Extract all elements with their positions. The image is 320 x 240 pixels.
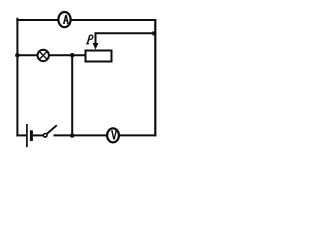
wire: slider feed horizontal — [96, 32, 157, 34]
wire: lamp row horizontal — [16, 54, 85, 56]
voltmeter U2 — [107, 128, 119, 142]
wire: right vertical — [154, 19, 156, 136]
label P — [86, 35, 93, 44]
switch K: pivot — [43, 134, 47, 138]
node: lamp row on left vertical — [15, 53, 20, 58]
wire: left vertical (battery negative riser) — [16, 18, 18, 137]
wire: top horizontal — [16, 19, 156, 21]
wire: switch to voltmeter — [54, 134, 108, 136]
rheostat P: slider arrow — [93, 32, 99, 49]
node: slider wire joins right vertical — [153, 31, 157, 36]
wire: battery to switch — [33, 134, 43, 136]
wire: bottom left stub — [16, 134, 26, 136]
lamp L1 — [38, 50, 49, 61]
rheostat P: body — [86, 51, 112, 62]
wire: voltmeter to bottom right corner — [119, 134, 156, 136]
wire: voltmeter branch vertical — [71, 55, 73, 136]
battery B1: short plate — [30, 130, 33, 141]
switch K: blade — [47, 125, 57, 134]
battery B1: long plate — [26, 124, 28, 147]
node: voltmeter branch junction — [70, 53, 75, 58]
node: branch joins bottom wire — [70, 133, 74, 137]
ammeter U1 — [58, 12, 70, 27]
